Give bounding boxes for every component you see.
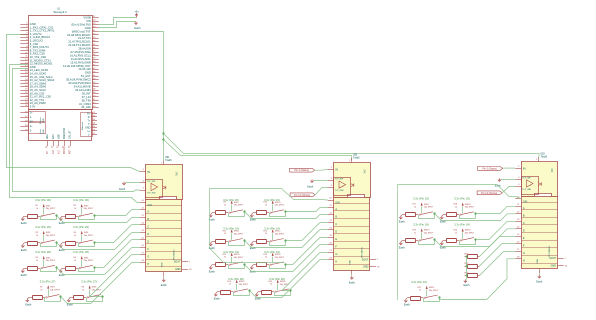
svg-text:SW18: SW18: [465, 204, 472, 206]
svg-text:D: D: [335, 231, 337, 234]
resistor R6: [62, 257, 78, 270]
wire: U1 pin to U$1 TLP_INN: [13, 69, 140, 192]
wire R21/SW21 to junction: [423, 298, 425, 302]
svg-text:Earth: Earth: [250, 219, 257, 222]
svg-text:A10: A10: [52, 149, 55, 154]
svg-text:Earth: Earth: [21, 274, 28, 277]
svg-text:13,VA,103: 13,VA,103: [78, 67, 91, 71]
svg-text:21,A7,RX1,BCLK1: 21,A7,RX1,BCLK1: [68, 40, 91, 44]
svg-text:FREQSHA: FREQSHA: [63, 127, 66, 139]
earth at R7: [25, 298, 32, 307]
svg-text:1k: 1k: [74, 235, 76, 237]
switch SW1 DA_SPDT: [41, 204, 56, 217]
wire R18/SW18 to junction: [459, 215, 461, 219]
U$3 SOUT / GND right pins: [549, 257, 567, 267]
svg-text:IN: IN: [335, 167, 338, 171]
svg-text:1k: 1k: [36, 235, 38, 237]
wire R1/SW1 to junction: [40, 216, 42, 219]
earth at R9: [209, 213, 216, 222]
wire: U1 5V0 to +5v symbol: [99, 18, 137, 25]
resistor R2: [62, 205, 78, 218]
wire R20/SW20 to junction: [459, 241, 461, 245]
svg-text:SW13: SW13: [234, 254, 241, 256]
svg-text:Earth: Earth: [134, 27, 141, 30]
net flag Pin 12 (Strobe): [290, 193, 315, 197]
earth at R18: [440, 215, 447, 224]
U$2 +V top pin: [349, 155, 360, 163]
svg-text:3.3v (Pin 28): 3.3v (Pin 28): [73, 250, 89, 254]
U1 bottom pins: [46, 127, 72, 154]
svg-text:GND: GND: [537, 258, 539, 263]
svg-text:GIN: GIN: [523, 200, 528, 203]
svg-text:2-: 2-: [30, 130, 32, 133]
svg-text:DA_SPDT: DA_SPDT: [429, 289, 439, 292]
U$1 opto input sub-circuit: [140, 180, 166, 198]
svg-text:1k: 1k: [36, 208, 38, 210]
earth at R15: [214, 292, 221, 301]
switch SW7 DA_SPDT: [46, 285, 61, 298]
svg-text:VIN: VIN: [86, 19, 91, 23]
svg-text:1k: 1k: [224, 233, 226, 235]
svg-text:31_CSN3: 31_CSN3: [79, 102, 91, 106]
wire: U1 pin to U$1 GIN: [10, 65, 140, 203]
switch SW4 DA_SPDT: [79, 231, 94, 244]
wire R3/SW3 to junction: [40, 243, 42, 247]
resistor R7: [29, 287, 45, 300]
svg-text:DA_SPDT: DA_SPDT: [50, 289, 60, 292]
switch SW10 DA_SPDT: [270, 200, 285, 213]
svg-text:3.3v (Pin 24): 3.3v (Pin 24): [454, 223, 470, 227]
svg-text:SOUT: SOUT: [174, 261, 181, 264]
svg-text:SOUT: SOUT: [362, 258, 369, 261]
svg-text:23,A9,TX1,MCLK1: 23,A9,TX1,MCLK1: [68, 43, 91, 47]
svg-text:55,AUX,PVW,SWC2: 55,AUX,PVW,SWC2: [66, 78, 91, 82]
svg-text:DA_SPDT: DA_SPDT: [275, 256, 285, 259]
svg-text:Earth: Earth: [536, 281, 543, 284]
earth at R5: [21, 268, 28, 277]
resistor R8: [70, 287, 86, 300]
svg-text:1k: 1k: [419, 290, 421, 292]
svg-text:SW11: SW11: [234, 231, 240, 233]
switch SW15 DA_SPDT: [234, 280, 249, 293]
resistor R5: [24, 257, 40, 270]
svg-text:DA_SPDT: DA_SPDT: [465, 232, 475, 235]
+5v power symbol: [134, 9, 139, 17]
resistor R19: [402, 230, 418, 243]
resistor R17: [402, 204, 418, 217]
U$1 IN pin: [140, 169, 150, 174]
svg-text:Host: Host: [39, 129, 42, 134]
svg-text:Earth: Earth: [464, 284, 471, 287]
earth at U$3 TLP_INP: [495, 178, 515, 187]
switch SW18 DA_SPDT: [460, 202, 475, 215]
wires: switch cells to U$2 inputs: [245, 208, 328, 298]
U$3 output-section left pins: [515, 197, 521, 259]
U$1 GND bottom pin + earth: [161, 272, 168, 287]
svg-text:DA_SPDT: DA_SPDT: [46, 234, 56, 237]
svg-text:IN: IN: [147, 170, 150, 174]
earth at R1: [21, 216, 28, 225]
U1 lower-left pins: [20, 111, 33, 132]
wire R19/SW19 to junction: [418, 241, 420, 245]
svg-text:43,A14,A364: 43,A14,A364: [75, 88, 91, 92]
svg-text:Earth: Earth: [209, 271, 216, 274]
wire: flag to U$3 TLP_INN: [502, 187, 515, 193]
svg-text:SW15: SW15: [239, 281, 246, 283]
earth at R8: [67, 298, 74, 307]
svg-text:3.3v (Pin 29): 3.3v (Pin 29): [73, 225, 89, 229]
svg-text:DA_SPDT: DA_SPDT: [424, 206, 434, 209]
resistor R9: [212, 202, 228, 215]
svg-text:(MISO out) TVT: (MISO out) TVT: [72, 29, 91, 33]
earth at U$2 TLP_INP: [307, 179, 327, 188]
svg-text:GND: GND: [85, 71, 91, 75]
svg-text:DA_SPDT: DA_SPDT: [46, 207, 56, 210]
svg-text:SW14: SW14: [275, 254, 282, 256]
svg-text:38_T49: 38_T49: [82, 98, 92, 102]
svg-text:DA_SPDT: DA_SPDT: [84, 234, 94, 237]
svg-text:GIN: GIN: [147, 204, 152, 207]
svg-text:D: D: [523, 229, 525, 232]
svg-text:CAL_BT: CAL_BT: [69, 130, 72, 139]
svg-text:3.3v (Pin 16): 3.3v (Pin 16): [411, 280, 427, 284]
svg-text:1k: 1k: [224, 257, 226, 259]
svg-text:Earth: Earth: [404, 304, 411, 307]
wire R4/SW4 to junction: [78, 243, 80, 247]
U$2 output-section left pins: [328, 198, 334, 260]
svg-text:1k: 1k: [229, 284, 231, 286]
svg-text:1k: 1k: [224, 205, 226, 207]
wire: feed to U$3 GIN: [398, 185, 522, 301]
svg-text:3.3v (Pin 29): 3.3v (Pin 29): [35, 225, 51, 229]
svg-text:U$2: U$2: [353, 155, 358, 157]
svg-text:21,A7,TX1: 21,A7,TX1: [78, 36, 91, 40]
svg-text:1k: 1k: [455, 232, 457, 234]
earth at R11: [209, 241, 216, 250]
wire R10/SW10 to junction: [269, 213, 271, 217]
U1 left pin bank (stubs + numbers + names): [20, 22, 55, 109]
net flag Pin 13 (Strobe): [477, 191, 502, 195]
svg-text:13,VA,103,SPNR_OUT: 13,VA,103,SPNR_OUT: [63, 64, 91, 68]
wire: flag to U$3 IN: [503, 167, 516, 169]
svg-text:28,A4,ISN: 28,A4,ISN: [78, 47, 90, 51]
switch SW20 DA_SPDT: [460, 228, 475, 241]
svg-text:3.3V: 3.3V: [30, 105, 36, 109]
svg-text:TPIC6B595: TPIC6B595: [361, 246, 363, 258]
U$2 opto input sub-circuit: [328, 178, 354, 196]
microcontroller U1 Teensy3.1: [29, 7, 93, 109]
resistor R16: [258, 281, 274, 295]
svg-text:RST: RST: [70, 149, 72, 154]
earth at R2: [59, 216, 66, 225]
earth at R21: [404, 298, 411, 307]
svg-text:1k: 1k: [414, 232, 416, 234]
switch SW8 DA_SPDT: [87, 285, 102, 298]
svg-text:Earth: Earth: [349, 282, 356, 285]
resistor R4: [62, 232, 78, 246]
svg-text:ARef: ARef: [46, 134, 49, 139]
switch SW6 DA_SPDT: [79, 256, 94, 269]
svg-text:GND: GND: [363, 266, 369, 269]
svg-text:GND: GND: [175, 268, 181, 271]
U$1 +V top pin: [161, 157, 172, 165]
svg-text:DA_SPDT: DA_SPDT: [84, 207, 94, 210]
wire R2/SW2 to junction: [78, 216, 80, 219]
wire: U1 pin to U$1 IN: [7, 35, 140, 172]
svg-text:TLP_INN: TLP_INN: [335, 190, 344, 192]
svg-text:DA_SPDT: DA_SPDT: [46, 259, 56, 262]
svg-text:22,A8,DIN1,MCLK1: 22,A8,DIN1,MCLK1: [67, 33, 91, 37]
U1 lower section (USB / Ethernet): [29, 110, 93, 141]
svg-text:L-: L-: [88, 133, 90, 136]
resistor R15: [217, 281, 233, 295]
earth at R13: [209, 265, 216, 274]
U$3 opto input sub-circuit: [515, 177, 541, 195]
svg-text:DA_SPDT: DA_SPDT: [234, 232, 244, 235]
svg-text:TLP_INP: TLP_INP: [522, 178, 531, 180]
svg-text:DA_SPDT: DA_SPDT: [239, 283, 249, 286]
svg-text:1k: 1k: [74, 208, 76, 210]
svg-text:TLP_INP: TLP_INP: [147, 181, 156, 183]
resistor stack R21 R22 R23: [464, 254, 480, 288]
wire: U1 TVT rail down to drivers: [99, 32, 164, 161]
svg-text:TriadS: TriadS: [165, 159, 172, 162]
svg-text:G: G: [335, 253, 337, 256]
svg-text:GND: GND: [551, 265, 557, 268]
svg-text:Earth: Earth: [161, 284, 168, 287]
svg-text:Earth: Earth: [255, 298, 262, 301]
svg-text:SW12: SW12: [275, 231, 282, 233]
svg-text:DA_SPDT: DA_SPDT: [234, 204, 244, 207]
wire: rail B to driver 2: [164, 140, 352, 161]
earth at R12: [250, 241, 257, 250]
switch SW11 DA_SPDT: [229, 229, 244, 242]
svg-text:Earth: Earth: [440, 221, 447, 224]
svg-text:Pin 4 (Status): Pin 4 (Status): [294, 169, 309, 172]
svg-text:3.3v (Pin 24): 3.3v (Pin 24): [413, 223, 429, 227]
svg-text:SW17: SW17: [424, 204, 431, 206]
svg-text:H: H: [335, 261, 337, 264]
svg-text:3.3v (Pin 30): 3.3v (Pin 30): [35, 198, 51, 202]
svg-text:3.3v (Pin 27): 3.3v (Pin 27): [40, 280, 56, 284]
svg-text:DAC: DAC: [52, 134, 55, 139]
earth at R4: [59, 243, 66, 252]
svg-text:Earth: Earth: [119, 188, 126, 191]
resistor R1: [24, 205, 40, 218]
resistor R11: [212, 230, 228, 243]
svg-text:SOUT: SOUT: [549, 257, 556, 260]
resistor R3: [24, 232, 40, 246]
svg-text:TLP_INN: TLP_INN: [147, 192, 156, 194]
earth at R14: [250, 265, 257, 274]
svg-text:C: C: [147, 225, 149, 228]
svg-text:TriadS: TriadS: [541, 156, 548, 159]
svg-text:Ethernet: Ethernet: [81, 121, 84, 130]
U$1 output-section left pins: [140, 200, 146, 263]
svg-text:51_AUT: 51_AUT: [81, 74, 91, 78]
svg-text:G: G: [523, 252, 525, 255]
earth at R3: [21, 243, 28, 252]
svg-text:1k: 1k: [265, 257, 267, 259]
svg-text:1k: 1k: [40, 289, 42, 291]
svg-text:DA_SPDT: DA_SPDT: [465, 206, 475, 209]
svg-text:Earth: Earth: [21, 249, 28, 252]
svg-text:SW20: SW20: [465, 230, 472, 232]
wire R8/SW8 to junction: [86, 298, 88, 302]
U$2 GND bottom pin + earth: [349, 270, 356, 285]
net flag Pin 5 (Status): [478, 167, 503, 171]
switch SW2 DA_SPDT: [79, 204, 94, 217]
resistor R12: [253, 230, 269, 243]
switch SW17 DA_SPDT: [419, 202, 434, 215]
svg-text:Earth: Earth: [214, 298, 221, 301]
svg-text:Earth: Earth: [399, 221, 406, 224]
svg-text:TPIC6B595: TPIC6B595: [549, 245, 551, 257]
earth at R19: [399, 241, 406, 250]
U$3 output section: [521, 197, 557, 269]
wires: switch cells to U$1 inputs: [57, 210, 140, 304]
earth at R17: [399, 215, 406, 224]
switch SW16 DA_SPDT: [275, 280, 290, 293]
earth at U$1 TLP_INP: [119, 182, 139, 191]
wire: rail A to driver 3: [164, 134, 540, 158]
wire R14/SW14 to junction: [269, 265, 271, 269]
resistor R13: [212, 254, 228, 267]
wire R5/SW5 to junction: [40, 268, 42, 271]
U$1 SOUT / GND right pins: [174, 261, 192, 271]
svg-text:+5v: +5v: [134, 9, 139, 13]
earth at R16: [255, 292, 262, 301]
svg-text:SW19: SW19: [424, 230, 431, 232]
earth at R6: [59, 268, 66, 277]
svg-text:Device: Device: [40, 117, 42, 124]
wire R13/SW13 to junction: [228, 265, 230, 269]
svg-text:Earth: Earth: [25, 303, 32, 306]
svg-text:H: H: [147, 263, 149, 266]
svg-text:1k: 1k: [82, 289, 84, 291]
svg-text:34_A30: 34_A30: [81, 105, 91, 109]
earth at R20: [440, 241, 447, 250]
U1 lower-right pins: [85, 112, 97, 136]
resistor R18: [443, 204, 459, 217]
svg-text:DA_SPDT: DA_SPDT: [275, 232, 285, 235]
resistor R10: [253, 202, 269, 215]
svg-text:16,A1,RVS,SCL1: 16,A1,RVS,SCL1: [70, 54, 91, 58]
svg-text:GND: GND: [349, 260, 351, 265]
wire R9/SW9 to junction: [228, 213, 230, 217]
svg-text:U$1: U$1: [165, 157, 170, 159]
U$3 IN pin: [515, 166, 525, 171]
svg-text:1k: 1k: [270, 284, 272, 286]
wire R12/SW12 to junction: [269, 241, 271, 245]
svg-text:DA_SPDT: DA_SPDT: [84, 259, 94, 262]
svg-text:1k: 1k: [265, 205, 267, 207]
svg-text:TPIC6B595: TPIC6B595: [173, 249, 175, 261]
wire: flag to U$2 IN: [315, 169, 328, 170]
svg-text:37_L13: 37_L13: [82, 95, 91, 99]
resistor R21: [407, 287, 423, 301]
switch SW13 DA_SPDT: [229, 253, 244, 266]
U$2 output section: [334, 198, 371, 271]
svg-text:IN: IN: [523, 166, 526, 170]
svg-text:Pin 5 (Status): Pin 5 (Status): [482, 167, 497, 170]
switch SW9 DA_SPDT: [229, 200, 244, 213]
earth at R10: [250, 213, 257, 222]
svg-text:DA_SPDT: DA_SPDT: [424, 232, 434, 235]
wire R6/SW6 to junction: [78, 268, 80, 271]
svg-text:3.3v (Pin 25): 3.3v (Pin 25): [413, 197, 429, 201]
earth at U1 GND: [134, 21, 141, 30]
switch SW14 DA_SPDT: [270, 253, 285, 266]
U$3 +V top pin: [536, 154, 547, 162]
svg-text:DA_SPDT: DA_SPDT: [275, 204, 285, 207]
svg-text:C: C: [523, 222, 525, 225]
svg-text:Teensy3.1: Teensy3.1: [53, 10, 67, 14]
svg-text:G: G: [147, 255, 149, 258]
svg-text:1k: 1k: [36, 260, 38, 262]
U$3 GND bottom pin + earth: [536, 269, 543, 284]
svg-text:H: H: [523, 259, 525, 262]
U$2 SOUT / GND right pins: [362, 258, 380, 268]
svg-text:SW16: SW16: [280, 281, 287, 283]
wire: flag to U$2 TLP_INN: [315, 188, 328, 195]
driver IC U$3 top section: [522, 162, 558, 197]
svg-text:D: D: [147, 233, 149, 236]
svg-text:3.3v (Pin 28): 3.3v (Pin 28): [35, 250, 51, 254]
svg-text:1k: 1k: [455, 207, 457, 209]
svg-text:DA_SPDT: DA_SPDT: [234, 256, 244, 259]
net flag Pin 4 (Status): [290, 168, 315, 172]
svg-text:GND: GND: [161, 262, 163, 267]
svg-text:TLP_INP: TLP_INP: [335, 179, 344, 181]
wire R15/SW15 to junction: [233, 292, 235, 296]
wire R17/SW17 to junction: [418, 215, 420, 219]
svg-text:34,A11,MOVE: 34,A11,MOVE: [74, 85, 91, 89]
driver IC U$1 top section: [146, 165, 183, 200]
wire R16/SW16 to junction: [274, 292, 276, 296]
svg-text:1k: 1k: [265, 233, 267, 235]
wire R11/SW11 to junction: [228, 241, 230, 245]
svg-text:(Din & 5Vo) 5V0: (Din & 5Vo) 5V0: [71, 22, 91, 26]
svg-text:14,A1,RVS,A011: 14,A1,RVS,A011: [71, 57, 92, 61]
svg-text:5V: 5V: [30, 121, 33, 124]
switch SW12 DA_SPDT: [270, 229, 285, 242]
svg-text:33,A44,PVW,SWU: 33,A44,PVW,SWU: [68, 81, 90, 85]
switch SW19 DA_SPDT: [419, 228, 434, 241]
wire: U1 GND to earth: [99, 22, 136, 28]
svg-text:GND: GND: [85, 26, 91, 30]
svg-text:PROG: PROG: [64, 147, 66, 154]
U1 right pin bank (stubs + numbers + names): [63, 16, 99, 110]
svg-text:SW10: SW10: [275, 202, 282, 204]
svg-text:TriadS: TriadS: [353, 157, 360, 160]
svg-text:3.3v (Pin 30): 3.3v (Pin 30): [73, 198, 89, 202]
svg-text:USB: USB: [43, 129, 45, 134]
wires: resistor stack to U$3: [480, 237, 516, 276]
svg-text:Earth: Earth: [21, 222, 28, 225]
svg-text:Earth: Earth: [399, 246, 406, 249]
wire R7/SW7 to junction: [44, 298, 46, 302]
svg-text:Earth: Earth: [307, 186, 314, 189]
svg-text:Pin 13 (Strobe): Pin 13 (Strobe): [481, 192, 497, 195]
switch SW3 DA_SPDT: [41, 231, 56, 244]
svg-text:USB: USB: [58, 134, 60, 139]
svg-text:A7,A5,RVS,SWA: A7,A5,RVS,SWA: [70, 50, 91, 54]
switch SW5 DA_SPDT: [41, 256, 56, 269]
svg-text:U$3: U$3: [541, 154, 546, 156]
svg-text:1k: 1k: [74, 260, 76, 262]
svg-text:VUSB: VUSB: [83, 16, 91, 20]
